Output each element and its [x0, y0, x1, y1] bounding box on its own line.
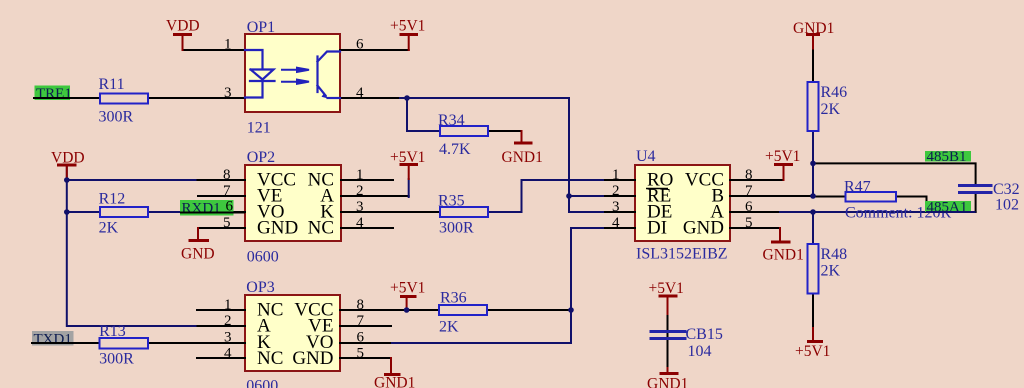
junction node VDD rail / R12 [64, 209, 70, 215]
svg-text:2: 2 [224, 313, 232, 329]
svg-text:8: 8 [357, 297, 365, 313]
svg-text:1: 1 [224, 37, 232, 53]
wire OP2 pin 4 stub [341, 227, 393, 229]
ground GND1 at U4 pin5 [771, 228, 791, 242]
junction node B / R47 [810, 193, 816, 199]
svg-text:GND: GND [292, 348, 333, 369]
svg-text:5: 5 [223, 215, 231, 231]
wire U4 pin 7 B to R47 node [730, 195, 813, 197]
power +5V1 at U4 pin8 [774, 165, 793, 181]
svg-text:1: 1 [356, 167, 364, 183]
ground GND at OP2 pin5 [189, 228, 210, 241]
wire OP1 pin4 node to U4 RE/DE vertical [400, 98, 605, 212]
svg-text:1: 1 [612, 167, 620, 183]
resistor R34 [440, 126, 488, 136]
svg-text:300R: 300R [99, 351, 134, 368]
svg-text:7: 7 [223, 183, 231, 199]
junction node OP3 VCC +5V1 [404, 307, 410, 313]
svg-text:GND1: GND1 [502, 149, 543, 166]
svg-text:GND1: GND1 [763, 247, 804, 264]
svg-text:R11: R11 [99, 76, 125, 93]
svg-text:1: 1 [224, 297, 232, 313]
wire U4 pin 5 to GND1 [730, 227, 780, 229]
svg-text:TRE1: TRE1 [36, 86, 72, 102]
capacitor C32 [960, 186, 992, 193]
svg-text:8: 8 [223, 167, 231, 183]
capacitor CB15 [651, 332, 685, 339]
resistor R48 [808, 244, 819, 294]
svg-text:R13: R13 [99, 323, 126, 340]
resistor R47 [846, 192, 897, 202]
net label 485B1 [925, 149, 971, 165]
wire B node to R47 [813, 196, 846, 198]
svg-text:+5V1: +5V1 [649, 280, 684, 297]
net label RXD1 [180, 200, 234, 217]
svg-text:5: 5 [745, 215, 753, 231]
svg-text:NC: NC [308, 218, 334, 239]
svg-text:GND: GND [257, 218, 298, 239]
svg-text:4: 4 [356, 215, 364, 231]
svg-text:3: 3 [224, 85, 232, 101]
transceiver U4 body [635, 165, 730, 241]
wire R12 to OP2 pin 6 [67, 211, 198, 213]
svg-text:121: 121 [247, 120, 271, 137]
optocoupler OP1 body [245, 34, 340, 112]
svg-text:RXD1: RXD1 [182, 201, 221, 217]
power +5V1 at OP1 [400, 35, 419, 51]
wire TXD1 to OP3 pin 3 [32, 342, 245, 344]
svg-text:OP1: OP1 [247, 19, 275, 36]
svg-text:R36: R36 [440, 290, 467, 307]
OP1 internal LED [245, 50, 275, 98]
svg-text:8: 8 [745, 167, 753, 183]
svg-text:OP2: OP2 [247, 149, 275, 166]
junction node VDD rail / OP2 pin8 [64, 177, 70, 183]
svg-text:102: 102 [995, 197, 1019, 214]
svg-text:4: 4 [224, 346, 232, 362]
svg-text:5: 5 [357, 346, 365, 362]
net label TRE1 [35, 86, 72, 103]
svg-text:GND1: GND1 [647, 376, 688, 388]
svg-text:R47: R47 [844, 179, 871, 196]
power +5V1 bottom at R48 [807, 328, 823, 342]
svg-text:VDD: VDD [51, 150, 85, 167]
net label TXD1 [32, 331, 74, 348]
svg-text:300R: 300R [439, 220, 474, 237]
svg-text:R46: R46 [821, 84, 848, 101]
wire C32 bottom to A net [975, 194, 977, 213]
power +5V1 at CB15 [659, 296, 678, 314]
svg-text:3: 3 [224, 330, 232, 346]
wire R34 to GND1 [488, 130, 522, 132]
wire VDD rail left [67, 166, 198, 326]
wire U4 DI vertical to OP3 VO [390, 228, 605, 343]
svg-text:4.7K: 4.7K [439, 141, 471, 158]
svg-text:TXD1: TXD1 [34, 332, 72, 348]
optocoupler OP3 body [245, 295, 340, 371]
wire node to R34 [407, 98, 440, 131]
svg-text:U4: U4 [636, 148, 656, 165]
junction node A / R48 [810, 209, 816, 215]
wire OP2 pin 1 stub [341, 179, 393, 181]
svg-text:6: 6 [357, 330, 365, 346]
wire OP2 pin 7 stub [198, 195, 245, 197]
optocoupler OP2 body [245, 165, 341, 241]
junction node R36 / DI [568, 307, 574, 313]
wire U4 pin 6 A to C32 [730, 211, 780, 213]
power VDD top [173, 35, 192, 51]
wire U4 pin 8 to +5V1 [730, 179, 784, 181]
svg-text:+5V1: +5V1 [390, 149, 425, 166]
svg-text:+5V1: +5V1 [390, 280, 425, 297]
svg-text:3: 3 [612, 199, 620, 215]
resistor R13 [100, 338, 149, 349]
svg-text:GND1: GND1 [374, 375, 415, 388]
junction node 485B1 / R46 [810, 161, 816, 167]
wire over TRE1 label [34, 97, 71, 99]
svg-text:485B1: 485B1 [927, 149, 967, 165]
svg-text:300R: 300R [99, 109, 134, 126]
ground GND1 at OP3 pin5 [384, 358, 401, 375]
wire OP3 pin 4 stub [197, 357, 245, 359]
resistor R36 [439, 305, 487, 315]
resistor R46 [808, 82, 819, 131]
svg-text:2K: 2K [439, 319, 459, 336]
wire OP1 pin 6 to +5V1 [340, 49, 409, 51]
svg-text:R35: R35 [438, 193, 465, 210]
svg-text:R12: R12 [99, 191, 126, 208]
svg-text:2: 2 [612, 183, 620, 199]
U4 RE overline [646, 188, 668, 190]
ground GND1 top right [806, 35, 820, 49]
wire OP2 pin 3 to R35 [341, 211, 440, 213]
wire A node to R48 [812, 212, 814, 244]
wire CB15 to GND1 [667, 340, 669, 368]
power VDD left [57, 165, 77, 180]
power +5V1 at OP3 [400, 297, 417, 311]
svg-text:GND1: GND1 [793, 20, 834, 37]
wire VDD to OP1 pin 1 [183, 35, 246, 50]
wire R35 to U4 RO pin 1 [488, 180, 605, 212]
svg-text:VDD: VDD [166, 18, 200, 35]
junction node at OP1 pin4 branch [404, 95, 410, 101]
svg-text:ISL3152EIBZ: ISL3152EIBZ [636, 246, 728, 263]
junction node U4 RE [566, 193, 572, 199]
svg-text:6: 6 [745, 199, 753, 215]
wire OP3 pin 1 stub [197, 309, 245, 311]
svg-text:OP3: OP3 [246, 279, 274, 296]
wire over 485A1 label [926, 211, 976, 213]
wire VDD rail to OP2 pin 8 [67, 179, 198, 181]
svg-text:C32: C32 [993, 181, 1020, 198]
wire +5V1 to CB15 [667, 314, 669, 337]
svg-text:4: 4 [612, 215, 620, 231]
svg-text:+5V1: +5V1 [765, 148, 800, 165]
wire GND1 to R46 [812, 48, 814, 82]
wire OP2 pin 2 to +5V1 [341, 195, 409, 197]
OP1 internal phototransistor [318, 52, 341, 99]
wire OP2 pin 5 to GND [198, 227, 245, 229]
OP1 internal coupling arrows [282, 68, 309, 84]
wire U4 RE pin 2 [569, 195, 605, 197]
wire R36 to DI vertical [487, 309, 571, 311]
svg-text:DI: DI [647, 218, 667, 239]
svg-text:CB15: CB15 [686, 326, 723, 343]
svg-text:3: 3 [356, 199, 364, 215]
svg-text:+5V1: +5V1 [795, 343, 830, 360]
svg-text:0600: 0600 [247, 249, 279, 266]
svg-text:+5V1: +5V1 [390, 18, 425, 35]
wire TRE1 to OP1 pin 3 [34, 97, 245, 99]
svg-text:2K: 2K [821, 263, 841, 280]
svg-text:GND: GND [683, 218, 724, 239]
svg-text:6: 6 [356, 37, 364, 53]
wire over RXD1 label [180, 212, 245, 214]
svg-text:2K: 2K [99, 220, 119, 237]
wire over TXD1 label [32, 342, 74, 344]
svg-text:NC: NC [257, 348, 283, 369]
svg-text:485A1: 485A1 [927, 200, 968, 216]
svg-text:GND: GND [181, 246, 215, 263]
wire 485B1 net to C32 top [813, 163, 976, 184]
wire OP1 pin 4 stub [340, 97, 400, 99]
svg-text:4: 4 [356, 85, 364, 101]
net label 485A1 [925, 200, 971, 216]
wire R48 to +5V1 bottom [812, 294, 814, 329]
svg-text:2: 2 [356, 183, 364, 199]
OP1 emitter arrowhead [322, 93, 329, 99]
power +5V1 at OP2 [400, 165, 419, 180]
resistor R11 [100, 94, 148, 104]
ground GND1 at R34 [514, 131, 533, 143]
wire OP3 pin 5 to GND1 [340, 357, 391, 359]
svg-text:0600: 0600 [246, 378, 278, 388]
svg-text:R34: R34 [438, 112, 465, 129]
resistor R12 [100, 207, 148, 217]
resistor R35 [440, 207, 488, 217]
svg-text:104: 104 [688, 343, 712, 360]
svg-text:2K: 2K [821, 101, 841, 118]
svg-text:7: 7 [745, 183, 753, 199]
wire R46 to B node [812, 131, 814, 196]
svg-text:7: 7 [357, 313, 365, 329]
wire OP3 pin 8 to +5V1 node [340, 309, 407, 311]
wire +5V1 node to R36 [407, 309, 439, 311]
ground GND1 at CB15 [660, 368, 679, 374]
wire OP3 pin 7 stub [340, 325, 391, 327]
wire R47 right to A net [896, 197, 927, 213]
svg-text:R48: R48 [821, 246, 848, 263]
